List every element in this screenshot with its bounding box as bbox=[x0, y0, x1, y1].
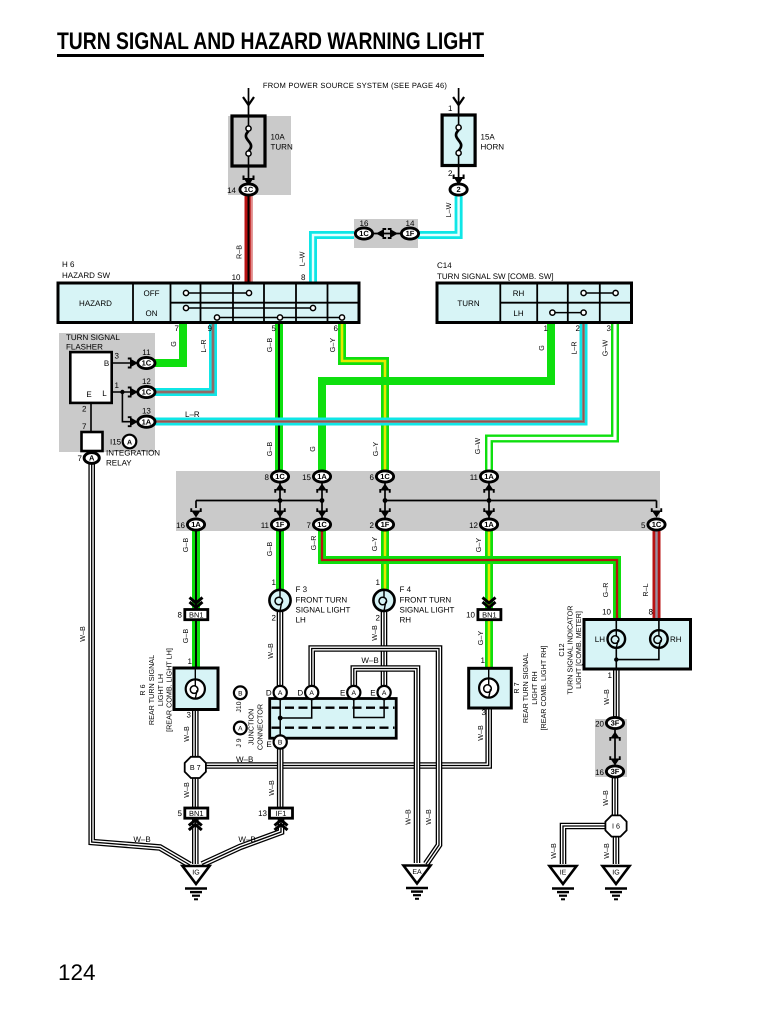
svg-text:BN1: BN1 bbox=[189, 610, 204, 619]
svg-text:1: 1 bbox=[544, 324, 549, 333]
svg-text:F 3: F 3 bbox=[296, 585, 308, 594]
svg-text:W–B: W–B bbox=[238, 835, 255, 844]
svg-text:1A: 1A bbox=[484, 472, 494, 481]
svg-text:16: 16 bbox=[595, 768, 604, 777]
svg-text:A: A bbox=[238, 726, 243, 733]
svg-text:6: 6 bbox=[334, 324, 339, 333]
svg-text:J10: J10 bbox=[236, 701, 243, 712]
svg-text:W–B: W–B bbox=[133, 835, 150, 844]
svg-text:HAZARD: HAZARD bbox=[79, 299, 112, 308]
svg-text:G–B: G–B bbox=[265, 442, 274, 457]
svg-text:W–B: W–B bbox=[370, 625, 379, 641]
svg-text:A: A bbox=[309, 690, 314, 697]
svg-text:1C: 1C bbox=[380, 472, 390, 481]
svg-text:JUNCTION: JUNCTION bbox=[247, 709, 256, 745]
svg-text:R–L: R–L bbox=[641, 583, 650, 596]
svg-text:11: 11 bbox=[142, 348, 151, 357]
svg-text:W–B: W–B bbox=[266, 643, 275, 659]
svg-text:W–B: W–B bbox=[78, 626, 87, 642]
svg-text:1: 1 bbox=[608, 671, 613, 680]
svg-text:1F: 1F bbox=[406, 229, 415, 238]
svg-text:1C: 1C bbox=[317, 520, 327, 529]
svg-text:7: 7 bbox=[82, 422, 87, 431]
svg-text:2: 2 bbox=[370, 521, 375, 530]
svg-text:5: 5 bbox=[272, 324, 277, 333]
svg-text:R 7: R 7 bbox=[512, 682, 521, 693]
svg-text:20: 20 bbox=[595, 720, 604, 729]
svg-text:A: A bbox=[352, 690, 357, 697]
svg-text:TURN: TURN bbox=[271, 143, 293, 152]
svg-text:11: 11 bbox=[261, 521, 270, 530]
svg-text:16: 16 bbox=[176, 521, 185, 530]
svg-text:[REAR COMB. LIGHT LH]: [REAR COMB. LIGHT LH] bbox=[165, 648, 174, 732]
svg-text:G: G bbox=[537, 345, 546, 351]
svg-text:SIGNAL LIGHT: SIGNAL LIGHT bbox=[296, 606, 351, 615]
svg-text:1: 1 bbox=[115, 381, 120, 390]
svg-text:G–W: G–W bbox=[601, 340, 610, 357]
svg-text:10: 10 bbox=[232, 273, 241, 282]
svg-text:1A: 1A bbox=[191, 520, 201, 529]
svg-text:1C: 1C bbox=[244, 185, 254, 194]
svg-text:1C: 1C bbox=[142, 388, 152, 397]
svg-text:TURN SIGNAL: TURN SIGNAL bbox=[66, 333, 120, 342]
svg-text:FROM POWER SOURCE SYSTEM (SEE: FROM POWER SOURCE SYSTEM (SEE PAGE 46) bbox=[263, 81, 448, 90]
svg-text:F 4: F 4 bbox=[400, 585, 412, 594]
svg-text:3: 3 bbox=[607, 324, 612, 333]
svg-text:14: 14 bbox=[406, 219, 415, 228]
svg-text:I15: I15 bbox=[110, 438, 122, 447]
svg-text:1: 1 bbox=[376, 578, 381, 587]
svg-text:12: 12 bbox=[469, 521, 478, 530]
svg-text:L–R: L–R bbox=[185, 410, 200, 419]
svg-text:W–B: W–B bbox=[404, 809, 413, 825]
svg-text:W–B: W–B bbox=[602, 689, 611, 705]
svg-text:10A: 10A bbox=[271, 133, 286, 142]
svg-text:I 6: I 6 bbox=[612, 822, 620, 831]
svg-text:6: 6 bbox=[370, 473, 375, 482]
svg-text:LH: LH bbox=[513, 309, 523, 318]
svg-text:G–R: G–R bbox=[309, 536, 318, 551]
svg-text:W–B: W–B bbox=[549, 843, 558, 859]
svg-text:7: 7 bbox=[307, 521, 312, 530]
svg-text:1: 1 bbox=[272, 578, 277, 587]
svg-text:TURN SIGNAL AND HAZARD WARNING: TURN SIGNAL AND HAZARD WARNING LIGHT bbox=[57, 28, 484, 55]
svg-text:13: 13 bbox=[258, 809, 267, 818]
svg-text:IF1: IF1 bbox=[276, 809, 287, 818]
svg-text:1: 1 bbox=[188, 657, 193, 666]
svg-text:OFF: OFF bbox=[144, 289, 160, 298]
svg-text:G–R: G–R bbox=[601, 583, 610, 598]
svg-text:SIGNAL LIGHT: SIGNAL LIGHT bbox=[400, 606, 455, 615]
svg-text:1C: 1C bbox=[275, 472, 285, 481]
svg-text:G: G bbox=[169, 341, 178, 347]
svg-text:16: 16 bbox=[360, 219, 369, 228]
svg-text:1A: 1A bbox=[317, 472, 327, 481]
svg-text:B: B bbox=[238, 690, 243, 697]
svg-text:3: 3 bbox=[115, 352, 120, 361]
svg-text:A: A bbox=[382, 690, 387, 697]
svg-text:E: E bbox=[86, 390, 91, 399]
svg-text:G–Y: G–Y bbox=[371, 442, 380, 457]
svg-text:L–R: L–R bbox=[199, 339, 208, 352]
svg-text:LH: LH bbox=[595, 635, 605, 644]
svg-text:FRONT TURN: FRONT TURN bbox=[400, 596, 452, 605]
svg-text:B: B bbox=[104, 359, 109, 368]
svg-text:RH: RH bbox=[670, 635, 682, 644]
svg-text:14: 14 bbox=[227, 186, 236, 195]
svg-text:FLASHER: FLASHER bbox=[66, 343, 103, 352]
svg-text:RH: RH bbox=[400, 616, 412, 625]
svg-text:8: 8 bbox=[649, 608, 654, 617]
svg-text:ON: ON bbox=[146, 309, 158, 318]
svg-text:IG: IG bbox=[192, 869, 199, 876]
svg-text:7: 7 bbox=[175, 324, 180, 333]
svg-text:2: 2 bbox=[457, 185, 461, 194]
svg-text:IE: IE bbox=[560, 869, 567, 876]
svg-text:L: L bbox=[102, 389, 107, 398]
svg-text:REAR TURN SIGNAL: REAR TURN SIGNAL bbox=[147, 655, 156, 725]
svg-text:W–B: W–B bbox=[182, 782, 191, 798]
svg-text:5: 5 bbox=[641, 521, 646, 530]
svg-text:G–B: G–B bbox=[181, 538, 190, 553]
svg-text:J 9: J 9 bbox=[236, 738, 243, 747]
svg-text:R 6: R 6 bbox=[138, 684, 147, 695]
svg-text:HORN: HORN bbox=[481, 143, 505, 152]
svg-text:REAR TURN SIGNAL: REAR TURN SIGNAL bbox=[521, 653, 530, 723]
svg-text:TURN SIGNAL SW [COMB. SW]: TURN SIGNAL SW [COMB. SW] bbox=[437, 272, 554, 281]
svg-text:G–Y: G–Y bbox=[476, 631, 485, 646]
svg-text:15A: 15A bbox=[481, 133, 496, 142]
svg-text:3F: 3F bbox=[611, 767, 620, 776]
svg-text:D: D bbox=[266, 689, 272, 698]
svg-text:G–W: G–W bbox=[473, 438, 482, 455]
svg-text:8: 8 bbox=[178, 610, 183, 619]
svg-text:C14: C14 bbox=[437, 261, 452, 270]
svg-text:W–B: W–B bbox=[601, 790, 610, 806]
svg-text:1C: 1C bbox=[142, 359, 152, 368]
svg-text:L–W: L–W bbox=[298, 251, 307, 266]
svg-text:W–B: W–B bbox=[602, 843, 611, 859]
svg-text:HAZARD SW: HAZARD SW bbox=[62, 271, 110, 280]
svg-text:11: 11 bbox=[470, 473, 479, 482]
svg-text:FRONT TURN: FRONT TURN bbox=[296, 596, 348, 605]
svg-text:13: 13 bbox=[142, 407, 151, 416]
svg-text:IG: IG bbox=[612, 869, 619, 876]
svg-text:LH: LH bbox=[296, 616, 306, 625]
svg-text:3: 3 bbox=[187, 711, 192, 720]
svg-text:W–B: W–B bbox=[182, 726, 191, 742]
svg-text:W–B: W–B bbox=[424, 809, 433, 825]
svg-text:9: 9 bbox=[208, 324, 213, 333]
svg-text:W–B: W–B bbox=[236, 755, 253, 764]
svg-text:INTEGRATION: INTEGRATION bbox=[106, 449, 160, 458]
svg-text:G–B: G–B bbox=[181, 629, 190, 644]
svg-text:5: 5 bbox=[178, 809, 183, 818]
svg-text:CONNECTOR: CONNECTOR bbox=[256, 704, 265, 750]
svg-text:R–B: R–B bbox=[235, 245, 244, 259]
svg-text:E: E bbox=[370, 689, 375, 698]
svg-text:1C: 1C bbox=[359, 229, 369, 238]
svg-text:1A: 1A bbox=[142, 417, 152, 426]
svg-text:B 7: B 7 bbox=[190, 763, 201, 772]
svg-text:E: E bbox=[266, 740, 271, 749]
svg-text:RELAY: RELAY bbox=[106, 459, 132, 468]
svg-text:2: 2 bbox=[82, 405, 87, 414]
svg-text:G: G bbox=[308, 446, 317, 452]
svg-text:G–B: G–B bbox=[265, 338, 274, 353]
svg-text:124: 124 bbox=[58, 960, 96, 985]
svg-text:RH: RH bbox=[513, 289, 525, 298]
svg-text:1: 1 bbox=[481, 656, 486, 665]
svg-text:L–R: L–R bbox=[570, 341, 579, 354]
svg-text:8: 8 bbox=[301, 273, 306, 282]
svg-text:D: D bbox=[297, 689, 303, 698]
svg-text:W–B: W–B bbox=[476, 725, 485, 741]
svg-text:G–Y: G–Y bbox=[370, 537, 379, 552]
svg-text:BN1: BN1 bbox=[482, 610, 497, 619]
svg-text:W–B: W–B bbox=[361, 656, 378, 665]
svg-text:TURN: TURN bbox=[457, 299, 479, 308]
svg-text:1F: 1F bbox=[276, 520, 285, 529]
svg-text:B: B bbox=[278, 740, 283, 747]
svg-text:A: A bbox=[89, 454, 95, 463]
svg-text:H 6: H 6 bbox=[62, 260, 75, 269]
svg-text:L–W: L–W bbox=[444, 202, 453, 217]
svg-text:E: E bbox=[340, 689, 345, 698]
svg-text:15: 15 bbox=[302, 473, 311, 482]
svg-text:2: 2 bbox=[576, 324, 581, 333]
svg-text:[REAR COMB. LIGHT RH]: [REAR COMB. LIGHT RH] bbox=[539, 646, 548, 731]
svg-text:2: 2 bbox=[448, 169, 453, 178]
svg-text:3: 3 bbox=[482, 708, 487, 717]
svg-text:2: 2 bbox=[376, 614, 381, 623]
svg-text:1C: 1C bbox=[652, 520, 662, 529]
svg-text:10: 10 bbox=[602, 608, 611, 617]
svg-text:G–Y: G–Y bbox=[474, 538, 483, 553]
svg-text:7: 7 bbox=[78, 454, 83, 463]
svg-text:G–Y: G–Y bbox=[328, 338, 337, 353]
svg-text:G–B: G–B bbox=[265, 542, 274, 557]
svg-text:LIGHT [COMB. METER]: LIGHT [COMB. METER] bbox=[574, 611, 583, 689]
svg-text:2: 2 bbox=[272, 614, 277, 623]
svg-text:3F: 3F bbox=[611, 719, 620, 728]
svg-text:EA: EA bbox=[412, 869, 422, 876]
svg-text:1: 1 bbox=[448, 104, 453, 113]
svg-text:LIGHT RH: LIGHT RH bbox=[530, 671, 539, 704]
svg-text:1F: 1F bbox=[381, 520, 390, 529]
svg-text:1A: 1A bbox=[484, 520, 494, 529]
svg-text:8: 8 bbox=[265, 473, 270, 482]
svg-text:W–B: W–B bbox=[267, 780, 276, 796]
svg-text:A: A bbox=[278, 690, 283, 697]
svg-text:12: 12 bbox=[142, 377, 151, 386]
svg-text:10: 10 bbox=[466, 610, 475, 619]
svg-text:A: A bbox=[127, 439, 132, 446]
svg-text:BN1: BN1 bbox=[189, 809, 204, 818]
